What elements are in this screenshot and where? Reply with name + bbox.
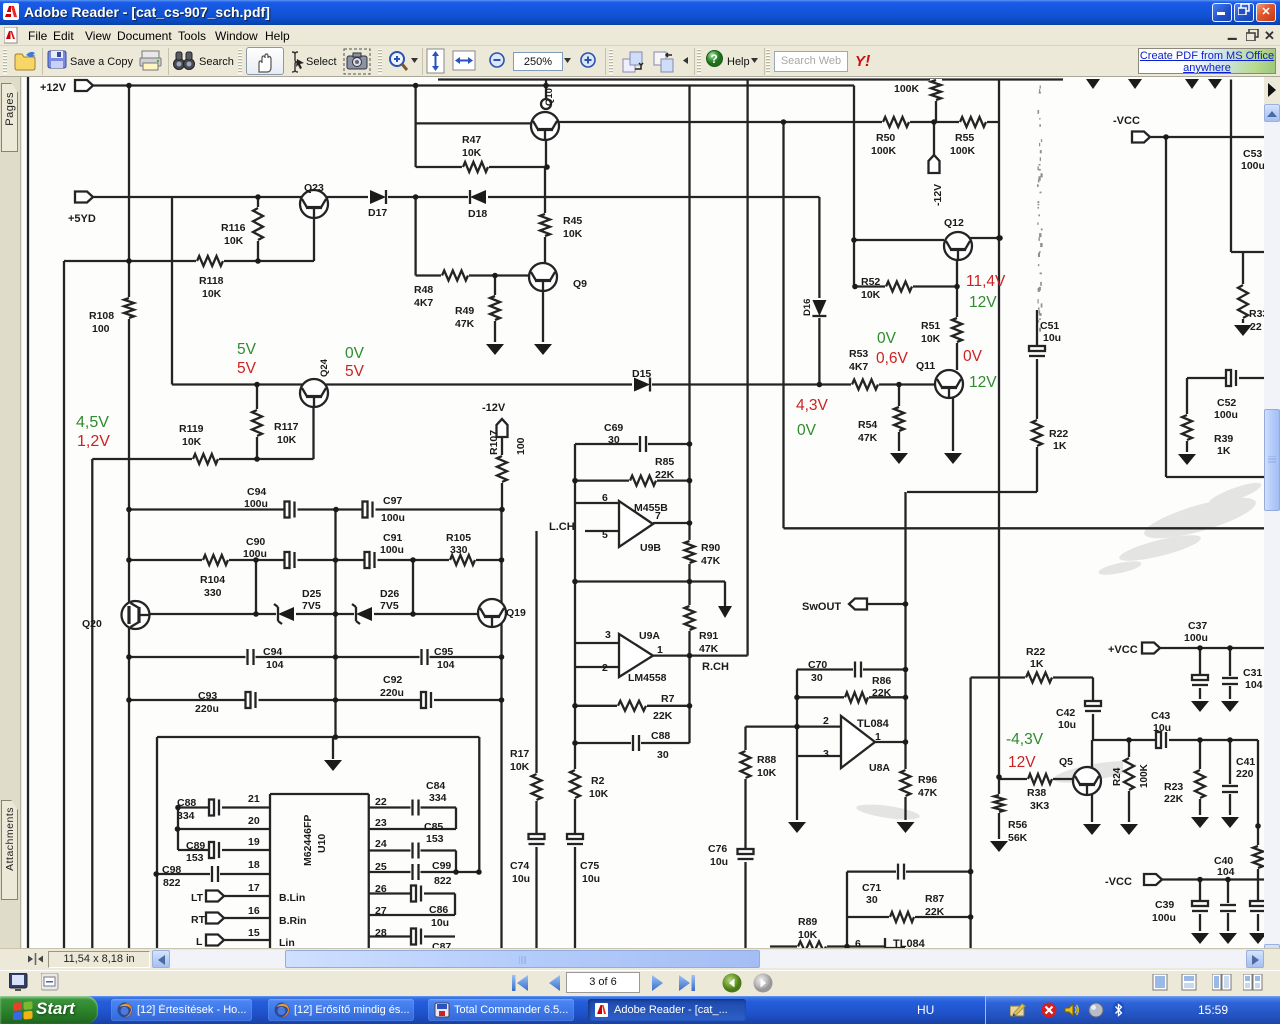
svg-text:24: 24: [375, 838, 387, 850]
svg-text:5: 5: [602, 529, 608, 541]
svg-text:D25: D25: [302, 588, 321, 600]
svg-text:U10: U10: [316, 834, 328, 853]
svg-text:822: 822: [434, 875, 452, 887]
svg-text:R87: R87: [925, 893, 944, 905]
svg-text:0V: 0V: [877, 330, 897, 347]
svg-text:-4,3V: -4,3V: [1006, 731, 1044, 748]
svg-text:3: 3: [823, 748, 829, 760]
svg-text:C52: C52: [1217, 397, 1236, 409]
svg-text:10K: 10K: [202, 288, 222, 300]
svg-text:5V: 5V: [237, 360, 257, 377]
svg-text:100u: 100u: [380, 544, 404, 556]
svg-text:10K: 10K: [510, 761, 530, 773]
svg-text:C94: C94: [247, 486, 266, 498]
svg-text:-VCC: -VCC: [1105, 876, 1132, 888]
svg-text:R88: R88: [757, 754, 776, 766]
svg-text:100u: 100u: [243, 548, 267, 560]
svg-text:M62446FP: M62446FP: [302, 815, 314, 866]
svg-text:1K: 1K: [1053, 440, 1067, 452]
svg-text:U9A: U9A: [639, 630, 660, 642]
svg-text:C98: C98: [162, 864, 181, 876]
svg-text:C99: C99: [432, 860, 451, 872]
svg-text:R118: R118: [199, 275, 224, 287]
svg-text:R50: R50: [876, 132, 895, 144]
svg-text:0V: 0V: [345, 345, 365, 362]
svg-text:7V5: 7V5: [302, 600, 321, 612]
svg-text:100K: 100K: [894, 83, 920, 95]
svg-text:D15: D15: [632, 368, 651, 380]
svg-text:R119: R119: [179, 423, 204, 435]
svg-text:L.CH: L.CH: [549, 521, 575, 533]
svg-text:TL084: TL084: [857, 718, 890, 730]
svg-text:+12V: +12V: [40, 82, 67, 94]
svg-text:100: 100: [515, 437, 527, 455]
svg-text:10u: 10u: [582, 873, 600, 885]
svg-text:C88: C88: [651, 730, 670, 742]
svg-text:R104: R104: [200, 574, 225, 586]
svg-text:12V: 12V: [1008, 754, 1036, 771]
svg-text:R52: R52: [861, 276, 880, 288]
svg-text:10K: 10K: [921, 333, 941, 345]
svg-text:22: 22: [375, 796, 387, 808]
svg-text:B.Lin: B.Lin: [279, 892, 305, 904]
svg-text:0,6V: 0,6V: [876, 350, 909, 367]
svg-text:10K: 10K: [798, 929, 818, 941]
svg-text:1K: 1K: [1030, 658, 1044, 670]
svg-text:30: 30: [608, 434, 620, 446]
svg-text:Lin: Lin: [279, 937, 295, 948]
svg-text:C42: C42: [1056, 707, 1075, 719]
svg-text:C75: C75: [580, 860, 599, 872]
svg-text:R17: R17: [510, 748, 529, 760]
svg-text:1: 1: [875, 731, 881, 743]
svg-text:D26: D26: [380, 588, 399, 600]
svg-text:153: 153: [186, 852, 204, 864]
svg-text:1K: 1K: [1217, 445, 1231, 457]
svg-text:10u: 10u: [710, 856, 728, 868]
svg-text:C43: C43: [1151, 710, 1170, 722]
svg-text:Q19: Q19: [506, 607, 526, 619]
svg-text:100u: 100u: [244, 498, 268, 510]
svg-text:D16: D16: [802, 299, 813, 316]
svg-text:Q9: Q9: [573, 278, 587, 290]
svg-text:C70: C70: [808, 659, 827, 671]
svg-text:330: 330: [204, 587, 222, 599]
svg-text:C84: C84: [426, 780, 445, 792]
svg-text:R54: R54: [858, 419, 877, 431]
svg-text:220: 220: [1236, 768, 1254, 780]
svg-text:C95: C95: [434, 646, 453, 658]
svg-text:U9B: U9B: [640, 542, 661, 554]
svg-text:16: 16: [248, 905, 260, 917]
svg-text:3K3: 3K3: [1030, 800, 1049, 812]
svg-text:28: 28: [375, 927, 387, 939]
svg-text:0V: 0V: [797, 422, 817, 439]
svg-text:30: 30: [657, 749, 669, 761]
svg-text:D17: D17: [368, 207, 387, 219]
svg-text:R107: R107: [488, 430, 500, 455]
svg-text:22K: 22K: [925, 906, 945, 918]
svg-text:153: 153: [426, 833, 444, 845]
svg-text:5V: 5V: [345, 363, 365, 380]
svg-text:12V: 12V: [969, 374, 997, 391]
svg-text:100K: 100K: [871, 145, 897, 157]
svg-text:C31: C31: [1243, 667, 1262, 679]
svg-text:10u: 10u: [1043, 332, 1061, 344]
svg-text:100u: 100u: [1152, 912, 1176, 924]
svg-text:B.Rin: B.Rin: [279, 915, 306, 927]
svg-text:C94: C94: [263, 646, 282, 658]
svg-text:10u: 10u: [1058, 719, 1076, 731]
svg-text:22K: 22K: [655, 469, 675, 481]
svg-text:?: ?: [711, 52, 718, 66]
svg-text:R56: R56: [1008, 819, 1027, 831]
svg-text:4,5V: 4,5V: [76, 414, 109, 431]
svg-text:10u: 10u: [512, 873, 530, 885]
svg-text:822: 822: [163, 877, 181, 889]
svg-text:10K: 10K: [277, 434, 297, 446]
svg-text:10K: 10K: [589, 788, 609, 800]
svg-text:C53: C53: [1243, 148, 1262, 160]
svg-text:10K: 10K: [224, 235, 244, 247]
svg-text:5V: 5V: [237, 341, 257, 358]
svg-text:TL084: TL084: [893, 938, 926, 948]
svg-text:R38: R38: [1027, 787, 1046, 799]
svg-text:0V: 0V: [963, 348, 983, 365]
svg-text:C71: C71: [862, 882, 881, 894]
svg-text:104: 104: [1217, 866, 1235, 878]
svg-text:C97: C97: [383, 495, 402, 507]
svg-text:C74: C74: [510, 860, 529, 872]
svg-text:LT: LT: [191, 892, 204, 904]
svg-text:U8A: U8A: [869, 762, 890, 774]
svg-text:C87: C87: [432, 941, 451, 948]
svg-text:R55: R55: [955, 132, 974, 144]
svg-text:C39: C39: [1155, 899, 1174, 911]
svg-text:R117: R117: [274, 421, 299, 433]
svg-text:R23: R23: [1164, 781, 1183, 793]
svg-text:-12V: -12V: [932, 184, 944, 206]
svg-text:19: 19: [248, 836, 260, 848]
svg-text:22K: 22K: [653, 710, 673, 722]
svg-text:R39: R39: [1214, 433, 1233, 445]
svg-text:C41: C41: [1236, 756, 1255, 768]
svg-text:47K: 47K: [858, 432, 878, 444]
svg-text:C89: C89: [186, 840, 205, 852]
svg-text:R91: R91: [699, 630, 718, 642]
svg-text:Q23: Q23: [304, 182, 324, 194]
svg-text:47K: 47K: [918, 787, 938, 799]
svg-text:30: 30: [811, 672, 823, 684]
svg-text:Q5: Q5: [1059, 756, 1073, 768]
svg-text:LM4558: LM4558: [628, 672, 667, 684]
svg-text:100: 100: [92, 323, 110, 335]
svg-text:R7: R7: [661, 693, 675, 705]
svg-text:2: 2: [823, 715, 829, 727]
svg-text:C92: C92: [383, 674, 402, 686]
svg-text:Q11: Q11: [916, 360, 935, 372]
svg-text:R116: R116: [221, 222, 246, 234]
svg-text:R89: R89: [798, 916, 817, 928]
svg-text:L: L: [196, 936, 203, 948]
svg-text:R33: R33: [1249, 308, 1264, 320]
svg-text:10u: 10u: [1153, 722, 1171, 734]
svg-text:R.CH: R.CH: [702, 661, 729, 673]
svg-text:M455B: M455B: [634, 502, 668, 514]
svg-text:47K: 47K: [699, 643, 719, 655]
svg-text:21: 21: [248, 793, 260, 805]
svg-text:30: 30: [866, 894, 878, 906]
svg-text:100u: 100u: [1214, 409, 1238, 421]
svg-text:R22: R22: [1026, 646, 1045, 658]
svg-text:17: 17: [248, 882, 260, 894]
svg-text:20: 20: [248, 815, 260, 827]
svg-text:-VCC: -VCC: [1113, 115, 1140, 127]
svg-text:22: 22: [1250, 321, 1262, 333]
svg-text:100u: 100u: [1241, 160, 1264, 172]
svg-text:R45: R45: [563, 215, 582, 227]
svg-text:334: 334: [177, 810, 195, 822]
svg-text:100K: 100K: [1139, 763, 1150, 788]
svg-text:100K: 100K: [950, 145, 976, 157]
svg-text:100u: 100u: [1184, 632, 1208, 644]
svg-text:11,4V: 11,4V: [966, 273, 1006, 290]
svg-text:56K: 56K: [1008, 832, 1028, 844]
svg-text:7V5: 7V5: [380, 600, 399, 612]
svg-text:1,2V: 1,2V: [77, 433, 110, 450]
svg-text:D18: D18: [468, 208, 487, 220]
svg-text:C69: C69: [604, 422, 623, 434]
svg-text:R53: R53: [849, 348, 868, 360]
svg-text:23: 23: [375, 817, 387, 829]
svg-text:104: 104: [437, 659, 455, 671]
svg-text:C86: C86: [429, 904, 448, 916]
svg-text:C85: C85: [424, 821, 443, 833]
svg-text:Q20: Q20: [82, 618, 102, 630]
svg-text:4K7: 4K7: [849, 361, 868, 373]
svg-text:-12V: -12V: [482, 402, 506, 414]
svg-text:100u: 100u: [381, 512, 405, 524]
svg-text:10K: 10K: [861, 289, 881, 301]
svg-text:4,3V: 4,3V: [796, 397, 829, 414]
svg-text:R105: R105: [446, 532, 471, 544]
svg-text:C51: C51: [1040, 320, 1059, 332]
svg-text:R22: R22: [1049, 428, 1068, 440]
svg-text:R2: R2: [591, 775, 605, 787]
svg-text:330: 330: [450, 544, 468, 556]
svg-text:22K: 22K: [1164, 793, 1184, 805]
svg-text:R47: R47: [462, 134, 481, 146]
svg-text:+VCC: +VCC: [1108, 644, 1138, 656]
svg-text:6: 6: [855, 938, 861, 948]
svg-text:12V: 12V: [969, 294, 997, 311]
svg-text:3: 3: [605, 629, 611, 641]
svg-text:6: 6: [602, 492, 608, 504]
svg-text:10K: 10K: [757, 767, 777, 779]
svg-text:4K7: 4K7: [414, 297, 433, 309]
svg-text:26: 26: [375, 883, 387, 895]
svg-text:15: 15: [248, 927, 260, 939]
svg-text:220u: 220u: [380, 687, 404, 699]
svg-text:10K: 10K: [462, 147, 482, 159]
svg-text:10K: 10K: [182, 436, 202, 448]
svg-text:47K: 47K: [701, 555, 721, 567]
svg-text:220u: 220u: [195, 703, 219, 715]
svg-text:R85: R85: [655, 456, 674, 468]
svg-text:Q10: Q10: [544, 88, 555, 106]
svg-text:47K: 47K: [455, 318, 475, 330]
svg-text:SwOUT: SwOUT: [802, 601, 841, 613]
svg-text:104: 104: [266, 659, 284, 671]
svg-text:10K: 10K: [563, 228, 583, 240]
svg-text:R48: R48: [414, 284, 433, 296]
svg-text:C88: C88: [177, 797, 196, 809]
svg-text:22K: 22K: [872, 687, 892, 699]
svg-text:1: 1: [657, 644, 663, 656]
svg-text:Q12: Q12: [944, 217, 964, 229]
svg-text:RT: RT: [191, 914, 206, 926]
svg-text:C37: C37: [1188, 620, 1207, 632]
svg-text:R96: R96: [918, 774, 937, 786]
svg-text:C93: C93: [198, 690, 217, 702]
svg-text:+5YD: +5YD: [68, 213, 96, 225]
svg-text:R108: R108: [89, 310, 114, 322]
svg-text:C91: C91: [383, 532, 402, 544]
svg-text:R49: R49: [455, 305, 474, 317]
svg-text:334: 334: [429, 792, 447, 804]
svg-text:R86: R86: [872, 675, 891, 687]
svg-text:2: 2: [602, 662, 608, 674]
svg-text:R90: R90: [701, 542, 720, 554]
svg-text:R51: R51: [921, 320, 940, 332]
svg-text:10u: 10u: [431, 917, 449, 929]
svg-text:25: 25: [375, 861, 387, 873]
svg-text:27: 27: [375, 905, 387, 917]
svg-text:104: 104: [1245, 679, 1263, 691]
svg-text:Q24: Q24: [319, 358, 330, 377]
svg-text:C76: C76: [708, 843, 727, 855]
svg-text:18: 18: [248, 859, 260, 871]
svg-text:R24: R24: [1112, 767, 1123, 786]
svg-text:C90: C90: [246, 536, 265, 548]
